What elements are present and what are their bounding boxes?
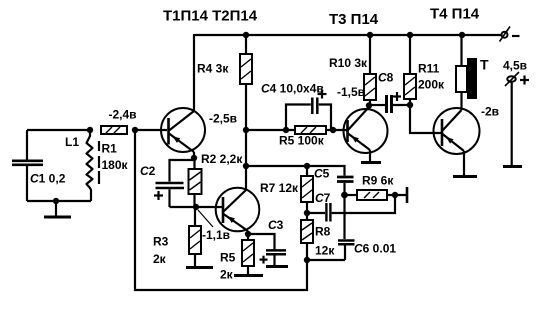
svg-text:R3: R3: [153, 235, 169, 249]
transistor T3: [344, 107, 388, 153]
wire C7 left: [307, 212, 325, 214]
ground T3 emitter: [361, 161, 381, 164]
node C4 right junction: [330, 127, 336, 133]
svg-text:Т: Т: [480, 57, 489, 73]
resistor R5 (100к): [295, 126, 326, 134]
capacitor C1: [12, 130, 43, 201]
node T2 emitter junction: [245, 231, 251, 237]
node L1 top junction: [87, 127, 93, 133]
resistor R9: [345, 190, 407, 200]
svg-text:-2в: -2в: [481, 105, 499, 119]
svg-text:180к: 180к: [102, 158, 129, 172]
transformer T primary winding: [456, 66, 467, 92]
wire R4 to T2 collector: [245, 130, 247, 166]
svg-text:-2,4в: -2,4в: [109, 108, 137, 122]
node bus junction at R10: [367, 32, 373, 38]
node T3 collector junction: [366, 102, 372, 108]
wire T1 collector from bus: [193, 34, 195, 111]
svg-text:С3: С3: [268, 218, 284, 232]
node base bias right junction: [132, 127, 138, 133]
inductor L1: [87, 130, 93, 201]
svg-text:Т1П14 Т2П14: Т1П14 Т2П14: [163, 8, 258, 25]
capacitor C7: [326, 203, 330, 222]
svg-text:R7 12к: R7 12к: [260, 181, 299, 195]
node C8/R11 junction: [407, 102, 413, 108]
svg-text:С6 0.01: С6 0.01: [354, 242, 396, 256]
svg-text:R10 3к: R10 3к: [329, 56, 368, 70]
svg-text:2к: 2к: [153, 252, 167, 266]
node bus junction at R4: [243, 32, 249, 38]
node R4 bottom junction: [243, 127, 249, 133]
node bus junction at R11: [407, 32, 413, 38]
node R7 top junction: [304, 163, 310, 169]
transistor T2: [216, 188, 260, 232]
resistor R3: [189, 207, 201, 266]
transistor T4: [434, 108, 480, 154]
ground T4 emitter: [453, 175, 477, 178]
svg-text:R9 6к: R9 6к: [362, 174, 394, 188]
svg-text:-2,5в: -2,5в: [209, 112, 237, 126]
svg-text:R2 2,2к: R2 2,2к: [201, 152, 243, 166]
svg-text:L1: L1: [65, 135, 79, 149]
svg-text:С2: С2: [140, 164, 156, 178]
svg-text:С1 0,2: С1 0,2: [30, 172, 66, 186]
terminal output tap: [406, 187, 409, 203]
wire C5 bottom to C6 top: [343, 195, 345, 239]
wire negative supply bus top: [194, 34, 502, 36]
svg-text:С4 10,0х4в: С4 10,0х4в: [261, 82, 324, 96]
wire C6 bottom to R8 bottom: [307, 259, 345, 261]
wire T1 base: [135, 129, 167, 131]
wire tank circuit top: [27, 129, 90, 131]
capacitor C4: [286, 90, 331, 131]
capacitor C5: [337, 177, 354, 195]
resistor R5 (2к): [242, 231, 254, 275]
node T1 emitter junction: [191, 155, 197, 161]
svg-text:R5: R5: [220, 251, 236, 265]
capacitor C6: [338, 241, 355, 261]
transistor T1: [161, 108, 205, 152]
svg-text:R1: R1: [102, 142, 118, 156]
resistor R4: [240, 35, 252, 130]
ground battery bottom bar: [503, 165, 522, 168]
node T2 collector junction: [243, 163, 249, 169]
svg-text:-1,5в: -1,5в: [337, 85, 365, 99]
wire interstage y130: [246, 129, 347, 131]
svg-text:С5: С5: [314, 167, 330, 181]
battery GB1 plus terminal: [505, 72, 529, 86]
svg-text:4,5в: 4,5в: [503, 59, 527, 73]
ground tank: [44, 201, 71, 217]
svg-text:R11: R11: [418, 62, 440, 76]
wire feedback line left/bottom: [135, 130, 307, 290]
svg-text:R4 3к: R4 3к: [197, 62, 229, 76]
resistor R10: [364, 35, 376, 106]
svg-text:R8: R8: [315, 225, 331, 239]
ground C3: [266, 265, 288, 268]
wire T3 emitter: [369, 150, 371, 161]
wire transformer to T4 collector: [460, 92, 462, 110]
resistor R1 (dashed edge beside L1): [98, 141, 100, 184]
wire tank circuit bottom: [27, 200, 91, 202]
wire T2 collector: [245, 166, 247, 190]
resistor R11: [404, 35, 416, 105]
svg-text:Т3 П14: Т3 П14: [329, 11, 379, 28]
resistor R8: [301, 213, 313, 260]
wire y166 to C5: [246, 166, 345, 176]
ground R3: [186, 266, 213, 269]
wire battery lead: [511, 82, 513, 166]
wire R11 to T4 base: [410, 105, 441, 133]
wire C7 right to R9 right: [332, 195, 395, 213]
wire voltage pointer -1,1в: [198, 210, 213, 227]
node R8 bottom junction: [304, 257, 310, 263]
svg-text:2к: 2к: [220, 268, 234, 282]
node R7/R8/C7 junction: [304, 210, 310, 216]
resistor R7: [301, 166, 313, 213]
node C5/R9/C6 junction: [341, 192, 348, 199]
svg-text:Т4 П14: Т4 П14: [430, 6, 480, 23]
svg-text:12к: 12к: [315, 244, 335, 258]
svg-text:С8: С8: [378, 71, 394, 85]
node T2 base junction: [193, 204, 199, 210]
wire C2/R2 bottom to T2 base: [170, 206, 223, 208]
svg-text:200к: 200к: [418, 78, 445, 92]
node bus junction at transformer: [459, 32, 465, 38]
wire T4 emitter: [463, 151, 465, 175]
switch SA1 minus terminal: [500, 27, 520, 42]
node R9 right junction: [392, 192, 398, 198]
ground R5: [234, 274, 263, 277]
node C4 left junction: [283, 127, 289, 133]
wire T1 emitter to C2: [193, 152, 195, 158]
resistor R2: [189, 158, 202, 207]
node tank ground junction: [53, 198, 59, 204]
resistor base bias horizontal (-2,4в): [101, 126, 127, 134]
wire bus to transformer: [460, 35, 462, 66]
svg-text:-1,1в: -1,1в: [202, 228, 230, 242]
transformer T core: [467, 58, 477, 99]
capacitor C8: [369, 92, 410, 113]
capacitor C3: [248, 234, 286, 265]
capacitor C2: [154, 183, 184, 207]
svg-text:С7: С7: [315, 191, 331, 205]
svg-text:R5 100к: R5 100к: [279, 134, 325, 148]
